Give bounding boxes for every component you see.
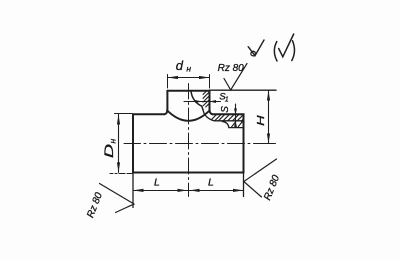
label S xyxy=(220,106,231,113)
dimension d_n line xyxy=(168,77,210,79)
svg-text:S: S xyxy=(220,106,231,113)
svg-text:н: н xyxy=(107,139,117,144)
svg-text:1: 1 xyxy=(225,96,229,103)
branch axis centerline xyxy=(188,84,190,197)
d_n arrows xyxy=(168,76,210,79)
main bore inner line xyxy=(222,121,244,127)
dimension L line xyxy=(133,190,244,192)
L arrows xyxy=(133,189,244,192)
svg-text:Rz 80: Rz 80 xyxy=(85,191,105,220)
svg-text:L: L xyxy=(154,177,160,189)
branch pipe left edge with fillet xyxy=(165,91,168,115)
label S1 xyxy=(219,92,229,104)
dimension S1 line xyxy=(184,101,221,103)
dimension D_n extension lines xyxy=(110,114,132,174)
svg-text:H: H xyxy=(256,114,267,126)
svg-text:L: L xyxy=(208,177,214,189)
S1 arrows xyxy=(195,100,216,103)
hatch main wall upper band xyxy=(212,115,244,122)
svg-text:D: D xyxy=(102,143,116,158)
corner symbol: parenthesized check xyxy=(274,42,277,62)
dimension d_n extension lines xyxy=(168,75,210,89)
main pipe outline xyxy=(133,113,165,115)
label d_n xyxy=(176,58,192,74)
hatch main wall lower band xyxy=(232,122,243,127)
branch pipe right edge with fillet xyxy=(210,91,213,115)
dimension H line xyxy=(268,91,270,144)
S arrows xyxy=(234,109,237,127)
roughness mark right end face xyxy=(244,159,277,197)
saddle intersection curve xyxy=(167,110,210,121)
label H xyxy=(256,114,267,126)
corner symbol: no-machining check with circle xyxy=(248,40,264,56)
svg-text:н: н xyxy=(186,64,191,74)
H arrows xyxy=(267,91,270,144)
bore wall inner edge xyxy=(202,106,203,110)
dimension L extension lines xyxy=(133,173,244,208)
roughness mark top (on branch top extension) xyxy=(224,64,247,91)
svg-text:Rz 80: Rz 80 xyxy=(262,173,282,202)
dimension H extension lines xyxy=(210,89,277,91)
branch pipe top edge xyxy=(167,90,209,92)
label Rz 80 left xyxy=(85,191,105,220)
label D_n xyxy=(102,139,118,159)
branch bore arc xyxy=(191,91,202,107)
svg-text:Rz 80: Rz 80 xyxy=(218,63,245,74)
roughness mark left end face xyxy=(100,184,135,213)
hatch branch wall xyxy=(203,91,209,107)
dimension S line xyxy=(235,104,237,127)
label Rz 80 right xyxy=(262,173,282,202)
inner flare into main bore xyxy=(203,110,244,121)
dimension D_n line xyxy=(118,114,120,172)
D_n arrows xyxy=(117,114,120,172)
main axis centerline xyxy=(124,143,276,145)
svg-text:d: d xyxy=(176,58,184,73)
